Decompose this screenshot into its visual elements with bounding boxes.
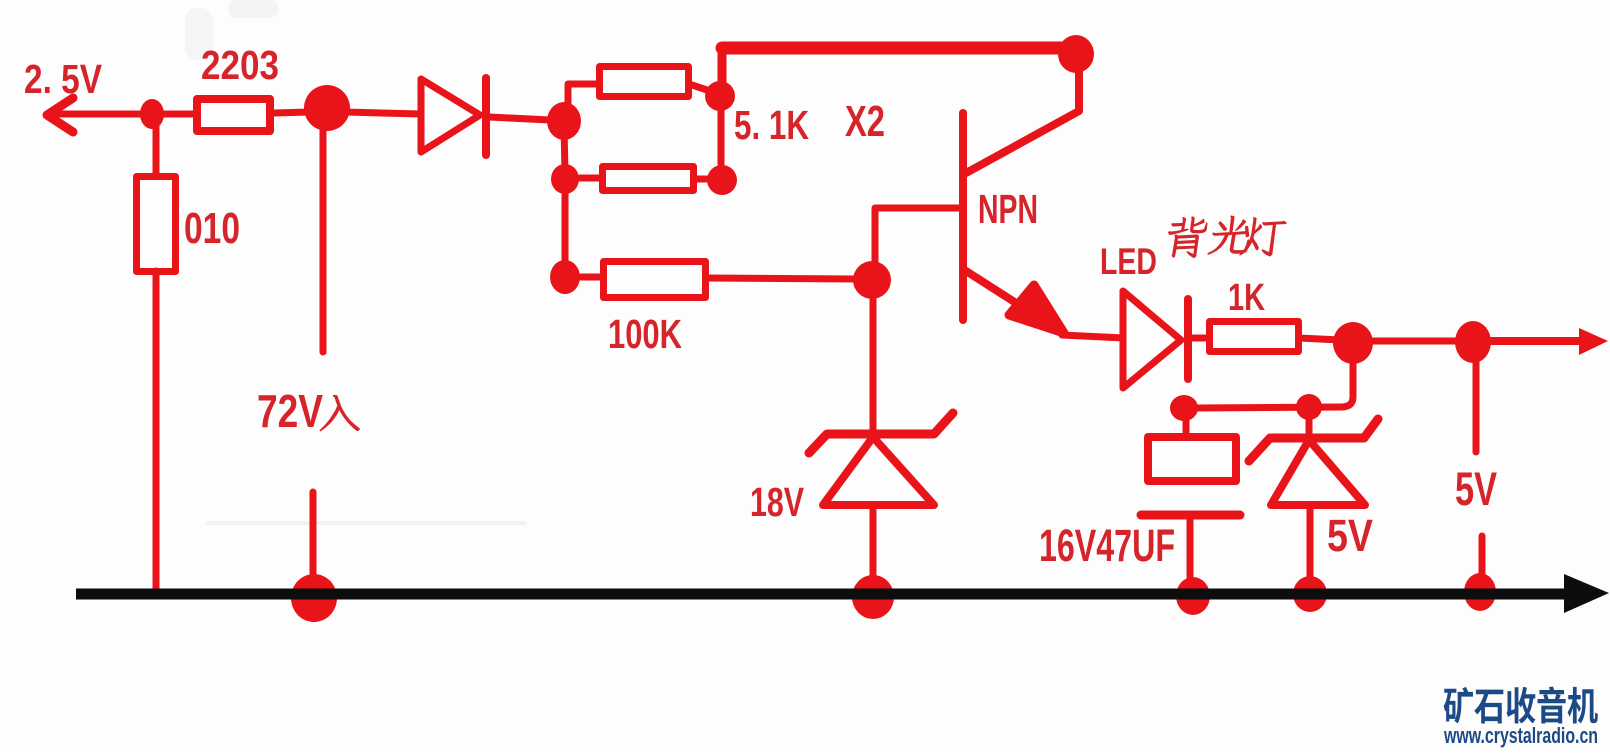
wire node F down to cap rail (1196, 360, 1353, 408)
svg-text:100K: 100K (608, 311, 682, 357)
node J2 72V input (304, 85, 350, 131)
svg-text:72V: 72V (257, 385, 323, 437)
wire R1 right to node B (689, 84, 716, 93)
bus junction 18V (852, 575, 894, 619)
svg-text:2203: 2203 (201, 42, 279, 88)
wire node A up to R1 (568, 84, 599, 117)
wire 100K to base node (706, 278, 856, 279)
node A (547, 102, 581, 140)
resistor R 5.1K lower (603, 167, 694, 191)
resistor R 010 (137, 177, 176, 272)
LED cathode bar (1184, 299, 1192, 379)
svg-text:1K: 1K (1228, 277, 1265, 319)
zener D2 18V anode triangle (823, 437, 934, 505)
svg-text:www.crystalradio.cn: www.crystalradio.cn (1443, 723, 1598, 748)
node 5V output arrowhead (1579, 328, 1608, 355)
transistor Q1 emitter lead (966, 271, 1030, 312)
wire node B up to top rail (718, 50, 727, 92)
wire 5V zener to bus (1307, 509, 1314, 578)
zener D3 5V anode triangle (1271, 440, 1365, 505)
label watermark 矿石收音机 (1444, 686, 1598, 723)
svg-text:NPN: NPN (978, 186, 1038, 232)
wire node F to node G (1370, 338, 1458, 345)
wire node G down 5V stub (1473, 360, 1480, 452)
svg-text:18V: 18V (750, 479, 804, 525)
transistor Q1 collector lead (966, 68, 1079, 173)
capacitor C1 16V47UF top electrode (1148, 437, 1236, 481)
svg-text:5V: 5V (1455, 462, 1497, 515)
zener D3 5V cathode bar (1249, 419, 1378, 461)
svg-text:X2: X2 (845, 97, 885, 146)
wire 010 to ground bus (153, 271, 160, 590)
svg-text:5V: 5V (1327, 510, 1373, 561)
wire 010 top (153, 122, 160, 176)
bus junction 5V out (1464, 573, 1496, 611)
node G output (1455, 321, 1491, 363)
resistor R 5.1K upper (600, 67, 689, 97)
wire node A down (564, 125, 565, 174)
bus junction 72V (291, 574, 337, 622)
diode D1 cathode bar (482, 78, 490, 155)
zener D2 18V cathode bar (809, 413, 953, 453)
wire ground bus (76, 589, 1568, 600)
svg-text:5. 1K: 5. 1K (734, 102, 809, 148)
label 背光灯 (1164, 217, 1208, 258)
wire 18V zener to bus (870, 509, 877, 580)
node cap tap (1170, 395, 1198, 421)
capacitor C1 bottom plate (1141, 511, 1240, 520)
wire node D down to node E (562, 184, 569, 272)
diode D1 anode triangle (421, 79, 480, 152)
wire 72V node to diode (345, 112, 421, 114)
wire top rail to collector node (722, 42, 1072, 55)
node 2.5V output arrow (47, 98, 73, 132)
bus junction 5V zener (1293, 576, 1327, 612)
wire R2 right to node C (694, 176, 710, 183)
wire cap node down (1183, 412, 1190, 434)
wire 72V node down stub (320, 128, 327, 352)
node D (551, 164, 579, 194)
svg-text:010: 010 (184, 204, 240, 253)
resistor R 1K (1210, 322, 1299, 352)
resistor R 2203 (197, 99, 270, 131)
wire 5V lower stub to bus (1479, 536, 1486, 578)
wire 2.5V arrow shaft (48, 111, 196, 118)
LED anode triangle (1123, 291, 1181, 388)
wire diode to node A (489, 117, 550, 120)
node B (705, 81, 735, 111)
wire node G to output arrow (1488, 337, 1584, 345)
resistor R 100K (604, 262, 706, 298)
transistor Q1 NPN base bar (959, 113, 967, 320)
svg-text:2. 5V: 2. 5V (24, 56, 103, 102)
wire base node down to 18V zener (870, 284, 877, 430)
wire node E to R 100K (581, 274, 605, 281)
ground bus arrowhead (1564, 574, 1609, 613)
transistor Q1 emitter arrowhead (1009, 285, 1064, 333)
bus junction cap (1176, 577, 1210, 615)
wire 1K to node F (1299, 338, 1340, 340)
node F output (1333, 322, 1373, 364)
node E (550, 260, 580, 294)
node base (853, 261, 891, 299)
wire 2203 to 72V node (274, 112, 310, 113)
node J1 2.5V branch (140, 99, 164, 129)
wire 72V input lower stub (310, 492, 317, 580)
wire base node up and to base (875, 208, 958, 274)
wire zener node down (1306, 410, 1313, 435)
node C (707, 165, 737, 195)
wire LED to R 1K (1192, 335, 1212, 342)
wire cap to bus (1187, 519, 1194, 580)
node collector rail (1058, 35, 1094, 73)
node zener 5V tap (1296, 394, 1322, 420)
svg-text:LED: LED (1100, 241, 1157, 282)
wire node B down to node C (718, 100, 725, 176)
wire emitter arrow to LED (1062, 335, 1124, 338)
svg-text:16V47UF: 16V47UF (1039, 520, 1175, 571)
wire node D to R2 (580, 175, 604, 182)
